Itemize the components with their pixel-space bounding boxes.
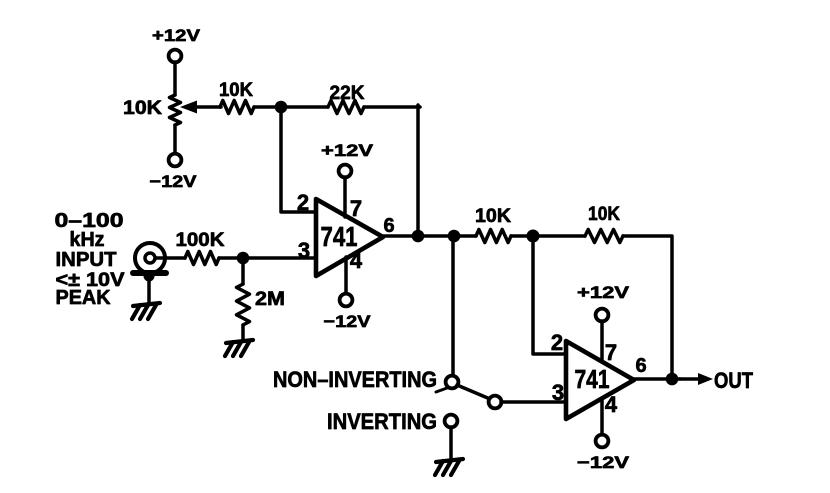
svg-text:4: 4 [350, 248, 363, 273]
svg-text:PEAK: PEAK [56, 287, 112, 309]
svg-text:10K: 10K [123, 98, 162, 119]
svg-text:2M: 2M [255, 289, 285, 310]
svg-text:+12V: +12V [321, 141, 374, 160]
wire down to NON-INVERTING contact [451, 236, 455, 375]
wire 10K to node C [511, 234, 585, 238]
wire connector shell to ground [147, 276, 151, 303]
wire connector to 100K [156, 256, 185, 260]
op-amp U1 741 [297, 190, 395, 276]
wire 100K to node B and pin 3 [219, 256, 316, 260]
svg-text:+12V: +12V [152, 26, 201, 45]
wire node A down to pin 2 [281, 107, 316, 212]
ground (INVERTING) [435, 459, 463, 475]
wire 2M to ground [241, 325, 245, 340]
wire pot bottom lead [173, 125, 177, 154]
svg-text:10K: 10K [588, 204, 620, 225]
wire INVERTING contact to ground [449, 427, 453, 459]
svg-text:kHz: kHz [70, 229, 105, 251]
svg-text:6: 6 [383, 215, 394, 237]
resistor 10K (pot wiper to node A) [219, 80, 254, 114]
resistor 10K (U1 out to U2 pin2) [475, 206, 511, 243]
svg-text:+12V: +12V [577, 283, 630, 302]
svg-text:−12V: −12V [150, 172, 198, 191]
switch lever [457, 385, 490, 399]
svg-text:−12V: −12V [577, 453, 630, 472]
wire 22K to feedback corner [364, 105, 420, 109]
switch contact NON-INVERTING [446, 376, 459, 389]
wire feedback vertical down to output node [416, 105, 420, 236]
junction to non-inverting switch [448, 230, 461, 243]
wire node A to 22K [281, 105, 328, 109]
svg-text:4: 4 [605, 392, 618, 417]
ground (2M) [225, 340, 253, 356]
svg-text:100K: 100K [176, 230, 225, 251]
wire pole to U2 pin 3 [501, 400, 566, 404]
svg-text:3: 3 [298, 238, 310, 263]
svg-text:NON–INVERTING: NON–INVERTING [273, 367, 437, 392]
svg-text:INVERTING: INVERTING [327, 409, 437, 434]
potentiometer 10K [123, 95, 221, 125]
junction feedback 22K at output [412, 230, 425, 243]
node C junction [527, 230, 540, 243]
svg-text:OUT: OUT [714, 368, 753, 393]
resistor 22K [328, 83, 365, 114]
input connector J1 [133, 243, 166, 282]
wire feedback corner to U2 output [623, 236, 672, 379]
wire U2 output [634, 377, 680, 381]
input label 0-100 kHz INPUT [55, 210, 125, 309]
svg-text:10K: 10K [219, 80, 253, 101]
svg-text:2: 2 [551, 330, 563, 355]
node A junction [275, 101, 288, 114]
+12V supply terminal (pot top) [152, 26, 201, 62]
ground (input connector) [132, 303, 160, 319]
wire U1 output [383, 234, 476, 238]
svg-text:741: 741 [575, 364, 610, 394]
-12V supply terminal (pot bottom) [150, 154, 198, 191]
svg-text:7: 7 [605, 340, 617, 365]
svg-text:−12V: −12V [324, 312, 372, 331]
-12V terminal U1 pin 4 [324, 257, 372, 331]
switch contact INVERTING [445, 415, 458, 428]
+12V terminal U1 pin 7 [321, 141, 374, 217]
svg-text:2: 2 [297, 190, 309, 215]
wire pot top lead [173, 62, 177, 95]
switch pole [489, 396, 502, 409]
resistor 100K [176, 230, 225, 265]
+12V terminal U2 pin 7 [577, 283, 630, 361]
OUT arrow [680, 373, 713, 385]
svg-text:6: 6 [635, 355, 646, 377]
-12V terminal U2 pin 4 [577, 398, 630, 472]
op-amp U2 741 [551, 330, 647, 419]
svg-text:3: 3 [552, 380, 564, 405]
wire node C down to U2 pin 2 [533, 236, 566, 354]
switch lever tick [436, 388, 447, 392]
resistor 10K feedback U2 [585, 204, 623, 243]
svg-text:22K: 22K [330, 83, 365, 104]
resistor 2M [237, 258, 286, 325]
svg-text:7: 7 [350, 196, 362, 221]
svg-text:10K: 10K [475, 206, 511, 227]
wire 10K to node A [254, 105, 281, 109]
svg-text:INPUT: INPUT [56, 249, 117, 271]
node B junction [237, 252, 250, 265]
junction U2 output node [666, 373, 679, 386]
